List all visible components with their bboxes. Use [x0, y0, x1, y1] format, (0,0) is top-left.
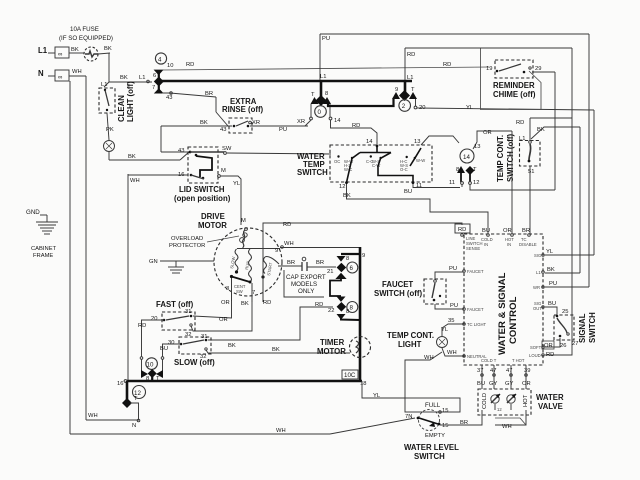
svg-text:BR: BR — [522, 228, 530, 234]
svg-text:N: N — [132, 423, 136, 429]
svg-text:18: 18 — [360, 381, 366, 387]
svg-text:T: T — [411, 87, 415, 93]
svg-text:9: 9 — [395, 87, 398, 93]
svg-text:XR: XR — [297, 119, 305, 125]
svg-text:BR: BR — [316, 260, 324, 266]
svg-text:31: 31 — [201, 334, 207, 340]
svg-text:LID SWITCH: LID SWITCH — [179, 185, 225, 194]
svg-text:FAUCET: FAUCET — [467, 269, 484, 274]
svg-text:LOUD: LOUD — [529, 353, 541, 358]
svg-text:8: 8 — [350, 305, 354, 312]
svg-text:10C: 10C — [344, 372, 356, 379]
svg-text:SOFT: SOFT — [530, 345, 542, 350]
svg-text:RD: RD — [138, 323, 146, 329]
svg-text:YL: YL — [373, 393, 381, 399]
svg-text:7: 7 — [152, 85, 155, 91]
svg-text:T: T — [134, 396, 138, 402]
svg-text:TIMER: TIMER — [320, 338, 345, 347]
svg-text:O-C: O-C — [400, 167, 408, 172]
svg-text:TC LIGHT: TC LIGHT — [467, 322, 487, 327]
svg-text:BU: BU — [160, 346, 168, 352]
svg-text:OR: OR — [544, 343, 553, 349]
svg-text:CAP EXPORT: CAP EXPORT — [286, 274, 326, 281]
svg-text:PU: PU — [279, 127, 287, 133]
svg-text:WH: WH — [276, 428, 286, 434]
svg-text:GY: GY — [489, 381, 498, 387]
svg-text:BR: BR — [287, 260, 295, 266]
svg-text:L1: L1 — [407, 75, 413, 81]
svg-text:BU: BU — [482, 228, 490, 234]
svg-text:L1: L1 — [101, 82, 107, 88]
svg-text:BK: BK — [71, 47, 79, 53]
svg-text:35: 35 — [448, 318, 454, 324]
svg-text:RD: RD — [443, 62, 451, 68]
svg-text:CHIME (off): CHIME (off) — [493, 90, 536, 99]
svg-text:YL: YL — [466, 105, 474, 111]
svg-text:BK: BK — [343, 193, 351, 199]
svg-text:YL: YL — [546, 249, 554, 255]
svg-text:WH: WH — [502, 424, 512, 430]
svg-text:43: 43 — [166, 95, 172, 101]
svg-text:WATER LEVEL: WATER LEVEL — [404, 443, 459, 452]
svg-text:26: 26 — [560, 343, 566, 349]
svg-text:11: 11 — [449, 180, 455, 186]
svg-text:32: 32 — [200, 354, 206, 360]
svg-text:10: 10 — [167, 63, 173, 69]
svg-text:BR: BR — [460, 420, 468, 426]
svg-text:∞: ∞ — [58, 51, 62, 58]
svg-text:14: 14 — [334, 118, 341, 124]
svg-text:BR: BR — [205, 91, 213, 97]
svg-text:8: 8 — [325, 91, 328, 97]
svg-text:43: 43 — [220, 127, 226, 133]
svg-text:T HOT: T HOT — [512, 358, 525, 363]
svg-text:PU: PU — [549, 281, 557, 287]
svg-text:30: 30 — [168, 340, 174, 346]
svg-text:31: 31 — [185, 309, 191, 315]
svg-text:L1: L1 — [519, 136, 525, 142]
svg-text:CABINET: CABINET — [31, 246, 57, 252]
svg-text:8: 8 — [346, 256, 349, 262]
svg-text:BK: BK — [200, 120, 208, 126]
svg-text:43: 43 — [178, 148, 184, 154]
svg-text:OR: OR — [503, 228, 512, 234]
svg-text:RD: RD — [546, 352, 554, 358]
svg-text:RD: RD — [352, 123, 360, 129]
svg-text:RD: RD — [407, 52, 415, 58]
svg-text:BK: BK — [272, 347, 280, 353]
svg-text:16: 16 — [117, 381, 123, 387]
svg-text:8: 8 — [346, 309, 349, 315]
svg-text:GND: GND — [26, 209, 40, 216]
svg-text:YL: YL — [233, 181, 241, 187]
svg-text:FRAME: FRAME — [33, 253, 53, 259]
svg-text:BK: BK — [128, 154, 136, 160]
svg-text:(IF SO EQUIPPED): (IF SO EQUIPPED) — [59, 35, 113, 42]
svg-text:BK: BK — [104, 46, 112, 52]
svg-text:TEMP CONT.: TEMP CONT. — [496, 135, 505, 182]
svg-text:WH: WH — [447, 350, 457, 356]
svg-text:N: N — [38, 69, 44, 78]
svg-text:∞: ∞ — [58, 74, 62, 81]
svg-text:9: 9 — [275, 248, 278, 254]
svg-text:M: M — [221, 168, 226, 174]
svg-text:OR: OR — [219, 317, 228, 323]
svg-text:LIGHT (off): LIGHT (off) — [126, 81, 135, 122]
svg-text:IN: IN — [507, 242, 511, 247]
svg-text:SWITCH: SWITCH — [414, 452, 445, 461]
svg-text:8: 8 — [456, 167, 459, 173]
svg-text:L1: L1 — [320, 74, 326, 80]
svg-text:FAUCET: FAUCET — [382, 280, 413, 289]
svg-text:51: 51 — [528, 169, 534, 175]
svg-text:PU: PU — [450, 303, 458, 309]
svg-text:EMPTY: EMPTY — [425, 433, 445, 439]
svg-text:47: 47 — [490, 368, 496, 374]
svg-text:WH: WH — [130, 178, 140, 184]
svg-text:BK: BK — [228, 343, 236, 349]
svg-text:OVERLOAD: OVERLOAD — [171, 236, 203, 242]
svg-text:SIG: SIG — [534, 253, 541, 258]
svg-text:37: 37 — [477, 368, 483, 374]
svg-text:RD: RD — [315, 302, 323, 308]
svg-text:YL: YL — [441, 327, 449, 333]
svg-text:VALVE: VALVE — [538, 402, 563, 411]
svg-text:14: 14 — [366, 139, 373, 145]
svg-text:COLD T: COLD T — [481, 358, 497, 363]
svg-text:12: 12 — [497, 407, 502, 412]
svg-text:6: 6 — [350, 265, 354, 272]
svg-text:T: T — [311, 92, 315, 98]
svg-text:(open position): (open position) — [174, 194, 231, 203]
svg-text:SWITCH: SWITCH — [588, 312, 597, 343]
svg-text:OR: OR — [522, 381, 531, 387]
svg-text:WATER: WATER — [536, 393, 564, 402]
svg-text:WH: WH — [284, 241, 294, 247]
svg-text:29: 29 — [535, 66, 541, 72]
svg-text:7N: 7N — [405, 414, 412, 420]
svg-text:2: 2 — [402, 103, 406, 110]
svg-text:0: 0 — [318, 109, 322, 116]
svg-text:6: 6 — [153, 73, 156, 79]
svg-text:SW: SW — [236, 289, 243, 294]
svg-text:WH: WH — [88, 413, 98, 419]
svg-text:M: M — [241, 218, 246, 224]
svg-text:SW: SW — [222, 146, 232, 152]
svg-text:SWITCH: SWITCH — [297, 168, 328, 177]
svg-text:SIGNAL: SIGNAL — [578, 313, 587, 343]
svg-text:PU: PU — [449, 266, 457, 272]
svg-text:RD: RD — [186, 62, 194, 68]
svg-text:SWITCH (off): SWITCH (off) — [506, 134, 515, 182]
svg-text:ONLY: ONLY — [298, 288, 314, 295]
svg-text:3: 3 — [226, 286, 229, 292]
svg-text:PROTECTOR: PROTECTOR — [169, 243, 205, 249]
svg-text:SWITCH (off): SWITCH (off) — [374, 289, 422, 298]
svg-text:T: T — [473, 167, 477, 173]
svg-text:FAUCET: FAUCET — [467, 307, 484, 312]
svg-text:XR: XR — [252, 120, 260, 126]
svg-text:OR: OR — [221, 300, 230, 306]
svg-text:PU: PU — [322, 36, 330, 42]
svg-text:CLEAN: CLEAN — [117, 95, 126, 122]
svg-text:9: 9 — [362, 253, 365, 259]
svg-text:20: 20 — [151, 316, 157, 322]
svg-text:14: 14 — [463, 154, 470, 161]
svg-text:SENSE: SENSE — [466, 246, 480, 251]
svg-text:W-C: W-C — [344, 167, 352, 172]
svg-text:DRIVE: DRIVE — [201, 212, 225, 221]
svg-text:RD: RD — [516, 120, 524, 126]
svg-text:RD: RD — [263, 300, 271, 306]
svg-text:MOTOR: MOTOR — [198, 221, 227, 230]
svg-text:BU: BU — [548, 301, 556, 307]
svg-text:WATER & SIGNAL: WATER & SIGNAL — [497, 272, 508, 355]
svg-text:12: 12 — [473, 180, 479, 186]
svg-text:TEMP CONT.: TEMP CONT. — [387, 331, 434, 340]
svg-text:4: 4 — [158, 57, 162, 64]
svg-text:SLOW (off): SLOW (off) — [174, 358, 215, 367]
svg-text:BK: BK — [120, 75, 128, 81]
svg-text:25: 25 — [562, 309, 568, 315]
svg-text:BU: BU — [477, 381, 485, 387]
svg-text:REMINDER: REMINDER — [493, 81, 535, 90]
svg-text:12: 12 — [339, 184, 345, 190]
svg-text:COLD: COLD — [482, 393, 488, 409]
svg-text:47: 47 — [506, 368, 512, 374]
svg-text:FAST (off): FAST (off) — [156, 300, 194, 309]
svg-text:11: 11 — [416, 183, 422, 189]
svg-text:LIGHT: LIGHT — [398, 340, 422, 349]
svg-text:WH: WH — [72, 69, 82, 75]
svg-text:19: 19 — [486, 66, 492, 72]
svg-text:MODELS: MODELS — [291, 281, 317, 288]
svg-text:39: 39 — [524, 368, 530, 374]
svg-text:OC: OC — [334, 159, 340, 164]
svg-text:22: 22 — [328, 308, 334, 314]
svg-text:10A FUSE: 10A FUSE — [70, 26, 99, 33]
svg-text:15: 15 — [442, 408, 448, 414]
svg-text:L1: L1 — [536, 270, 541, 275]
svg-text:W-W: W-W — [416, 158, 425, 163]
svg-text:15: 15 — [442, 423, 448, 429]
svg-text:WH: WH — [424, 355, 434, 361]
svg-text:RINSE (off): RINSE (off) — [222, 105, 264, 114]
svg-text:PK: PK — [106, 127, 114, 133]
svg-text:FULL: FULL — [425, 402, 441, 409]
svg-text:BK: BK — [547, 267, 555, 273]
svg-text:13: 13 — [474, 144, 480, 150]
svg-text:10: 10 — [147, 362, 154, 369]
svg-text:MOTOR: MOTOR — [317, 347, 346, 356]
svg-text:DISABLE: DISABLE — [519, 242, 537, 247]
svg-text:GN: GN — [149, 259, 158, 265]
svg-text:BK: BK — [241, 301, 249, 307]
svg-text:OUT: OUT — [533, 306, 542, 311]
svg-text:CONTROL: CONTROL — [508, 296, 519, 344]
svg-text:HOT: HOT — [523, 394, 529, 407]
svg-text:GY: GY — [505, 381, 514, 387]
svg-text:L1: L1 — [38, 46, 48, 55]
svg-text:IN: IN — [484, 242, 488, 247]
svg-text:RD: RD — [458, 227, 466, 233]
svg-text:21: 21 — [327, 269, 333, 275]
svg-text:L1: L1 — [139, 75, 145, 81]
svg-text:13: 13 — [414, 139, 420, 145]
svg-text:WR: WR — [533, 285, 540, 290]
svg-text:RD: RD — [283, 222, 291, 228]
svg-text:BU: BU — [404, 189, 412, 195]
